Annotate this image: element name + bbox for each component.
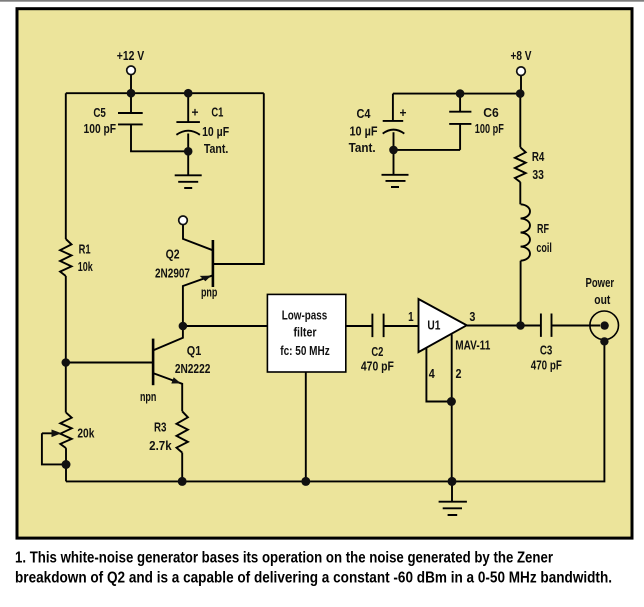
svg-text:R1: R1 [79,243,91,257]
capacitor C5 [118,93,188,151]
arrow pot wiper [52,430,62,438]
svg-text:breakdown of Q2 and is a capab: breakdown of Q2 and is a capable of deli… [15,570,612,587]
wire rail to R4 [519,94,521,148]
wire +8V rail [393,93,520,95]
svg-text:R4: R4 [532,150,545,164]
node connector shell [600,337,608,345]
svg-text:2N2222: 2N2222 [175,362,211,376]
svg-text:coil: coil [536,241,552,255]
wire coil to output node [520,261,522,326]
op-amp U1 MAV-11 [419,299,467,481]
terminal +12V [127,66,136,75]
svg-text:Low-pass: Low-pass [282,309,328,323]
svg-text:RF: RF [537,222,549,236]
ground below C1 [175,175,202,188]
bottom ground rail [66,341,604,481]
svg-text:Power: Power [586,276,615,290]
wire filter bottom stub [305,372,307,481]
wire C4 bottom to C6 bottom [394,149,461,151]
wire R4 to coil [519,182,521,204]
node +12V rail / C1 [184,89,193,98]
svg-text:pnp: pnp [201,285,218,299]
node R3 / ground rail [178,477,187,486]
wire R1 bottom to Q1 base junction to pot [65,276,67,413]
svg-text:Tant.: Tant. [204,142,229,156]
node Q2 emitter / Q1 collector [179,322,188,331]
svg-text:+12 V: +12 V [117,49,145,63]
resistor R1 [60,239,71,276]
svg-text:filter: filter [294,326,317,340]
resistor R3 [177,411,188,452]
node C4 bottom [389,146,398,155]
potentiometer 20k [42,413,72,482]
ground below U1 pin2 [439,481,467,515]
svg-text:20k: 20k [77,427,94,441]
svg-text:C4: C4 [357,107,371,121]
node C5/C1 ground join [184,147,193,156]
svg-text:Q1: Q1 [187,344,202,358]
top scan line [0,0,644,2]
wire top-left +12V rail [66,92,264,94]
svg-text:10 µF: 10 µF [350,125,378,139]
svg-text:fc: 50 MHz: fc: 50 MHz [280,344,330,358]
capacitor C1 [176,93,200,175]
wire Q2 base vertical [213,93,264,264]
wire left vertical from rail to R1 [65,93,67,239]
svg-text:33: 33 [532,168,544,182]
node U1 pin2 / ground rail [448,477,457,486]
arrow Q2 emitter [200,276,212,282]
node pot wiper join [62,460,71,469]
open terminals [127,66,526,225]
svg-text:U1: U1 [427,319,440,333]
wire U1 out to C3 [467,325,541,327]
wire filter out to C2 [346,325,373,327]
node Q1 base / R1 [62,358,71,367]
wire R3 bottom [181,453,183,482]
svg-text:470 pF: 470 pF [531,359,562,373]
svg-text:+: + [192,106,199,120]
node +8V rail / R4 [516,89,525,98]
svg-text:100 pF: 100 pF [84,122,117,136]
inductor RF coil [521,204,530,260]
transistor Q2 [183,225,213,326]
wire +12V terminal stub [130,75,132,94]
svg-text:C1: C1 [211,106,223,120]
node U1 pin4/pin2 join [447,397,456,406]
node connector center pin [600,321,608,329]
svg-text:C2: C2 [371,345,383,359]
svg-text:4: 4 [429,367,435,381]
svg-text:1: 1 [408,310,414,324]
arrow Q1 emitter [171,377,181,383]
svg-text:10k: 10k [78,260,93,274]
svg-text:C6: C6 [483,106,499,120]
svg-text:+: + [400,106,407,120]
terminal +8V [517,67,526,76]
svg-text:C3: C3 [540,343,553,357]
capacitor C3 [541,314,600,337]
transistor Q1 [66,326,183,411]
svg-text:2: 2 [456,367,462,381]
capacitor C6 [449,94,471,150]
wire +8V terminal stub [520,76,522,94]
svg-text:Tant.: Tant. [349,141,376,155]
node coil / C3 [516,321,525,330]
terminal Q2 collector [179,216,188,225]
svg-text:out: out [594,293,611,307]
svg-text:10 µF: 10 µF [202,125,229,139]
svg-text:2.7k: 2.7k [149,439,172,453]
node +8V rail / C6 [456,89,465,98]
svg-text:npn: npn [140,390,157,404]
svg-text:470 pF: 470 pF [361,360,394,374]
svg-text:Q2: Q2 [166,248,180,262]
node +12V rail / C5 [127,89,136,98]
low-pass filter box [267,294,345,372]
capacitor C2 [372,314,418,338]
svg-text:C5: C5 [93,106,106,120]
svg-text:100 pF: 100 pF [475,122,504,136]
svg-text:+8 V: +8 V [511,49,533,63]
svg-text:R3: R3 [154,421,167,435]
svg-text:3: 3 [469,310,475,324]
svg-text:1. This white-noise generator: 1. This white-noise generator bases its … [15,550,553,567]
wire Q2 emitter node to filter [183,325,268,327]
node filter stub / ground rail [301,477,310,486]
svg-text:2N2907: 2N2907 [155,266,190,280]
svg-text:MAV-11: MAV-11 [455,339,490,353]
capacitor C4 [383,94,405,175]
connector Power out [590,311,619,340]
ground below C4 [382,175,409,187]
resistor R4 [515,147,526,182]
